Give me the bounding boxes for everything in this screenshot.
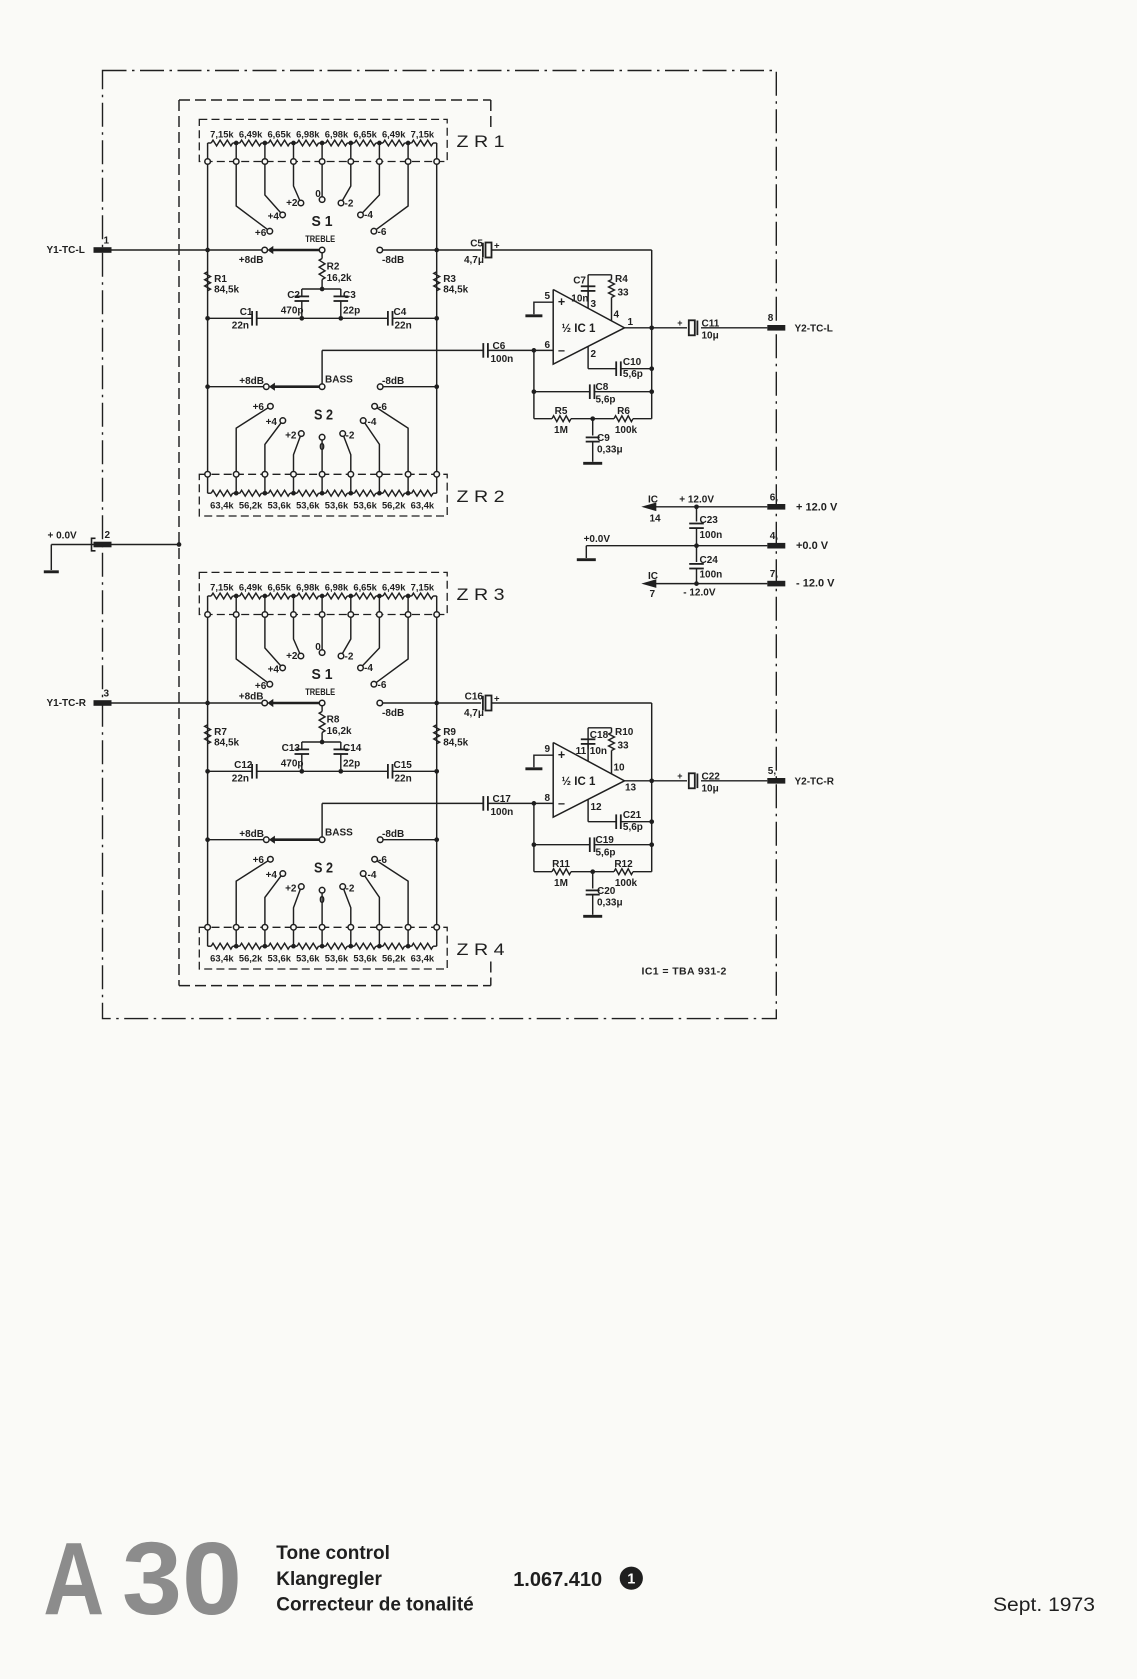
svg-text:Correcteur de tonalité: Correcteur de tonalité xyxy=(276,1595,473,1616)
svg-text:+8dB: +8dB xyxy=(239,692,264,703)
svg-text:-2: -2 xyxy=(346,431,355,442)
svg-text:10μ: 10μ xyxy=(702,331,719,342)
svg-text:53,6k: 53,6k xyxy=(353,953,377,964)
svg-text:-4: -4 xyxy=(364,210,373,221)
svg-text:-6: -6 xyxy=(378,855,387,866)
svg-text:+: + xyxy=(494,693,500,704)
svg-text:+2: +2 xyxy=(285,884,297,895)
svg-text:16,2k: 16,2k xyxy=(327,726,352,737)
svg-text:C8: C8 xyxy=(596,382,609,393)
svg-text:10n: 10n xyxy=(590,746,607,757)
svg-text:Z R 3: Z R 3 xyxy=(457,586,505,604)
svg-text:6: 6 xyxy=(544,340,550,351)
svg-text:10n: 10n xyxy=(571,294,588,305)
svg-text:Y1-TC-L: Y1-TC-L xyxy=(47,245,85,256)
svg-text:7,15k: 7,15k xyxy=(210,128,234,139)
svg-text:Z R 4: Z R 4 xyxy=(457,941,505,959)
svg-text:100k: 100k xyxy=(615,425,638,436)
svg-text:+: + xyxy=(558,295,565,309)
svg-text:C13: C13 xyxy=(282,743,301,754)
svg-text:R3: R3 xyxy=(443,274,456,285)
svg-text:C18: C18 xyxy=(590,730,609,741)
svg-text:16,2k: 16,2k xyxy=(327,273,352,284)
svg-text:C16: C16 xyxy=(465,691,484,702)
svg-text:6,98k: 6,98k xyxy=(325,128,349,139)
svg-text:-8dB: -8dB xyxy=(382,376,404,387)
svg-text:+: + xyxy=(558,748,565,762)
svg-text:C10: C10 xyxy=(623,357,642,368)
svg-text:470p: 470p xyxy=(281,759,304,770)
svg-text:1M: 1M xyxy=(554,878,568,889)
svg-text:53,6k: 53,6k xyxy=(296,500,320,511)
svg-text:22n: 22n xyxy=(395,321,412,332)
svg-text:+8dB: +8dB xyxy=(239,255,264,266)
svg-text:84,5k: 84,5k xyxy=(214,285,239,296)
svg-text:C9: C9 xyxy=(597,433,610,444)
svg-text:+ 12.0 V: + 12.0 V xyxy=(796,502,838,514)
svg-text:6,49k: 6,49k xyxy=(239,128,263,139)
svg-text:53,6k: 53,6k xyxy=(325,953,349,964)
svg-text:14: 14 xyxy=(650,514,662,525)
svg-text:R7: R7 xyxy=(214,727,227,738)
svg-text:C12: C12 xyxy=(234,760,253,771)
svg-text:C7: C7 xyxy=(573,276,586,287)
svg-text:8: 8 xyxy=(768,313,774,324)
svg-text:–: – xyxy=(558,343,565,357)
svg-text:2: 2 xyxy=(105,530,111,541)
svg-text:33: 33 xyxy=(618,741,630,752)
svg-text:C3: C3 xyxy=(343,290,356,301)
svg-text:22p: 22p xyxy=(343,306,360,317)
svg-text:6,98k: 6,98k xyxy=(325,581,349,592)
svg-text:+6: +6 xyxy=(253,402,265,413)
svg-text:C20: C20 xyxy=(597,886,616,897)
svg-text:C14: C14 xyxy=(343,743,362,754)
svg-text:6,98k: 6,98k xyxy=(296,128,320,139)
svg-text:+4: +4 xyxy=(268,665,280,676)
svg-text:+4: +4 xyxy=(268,212,280,223)
svg-text:-2: -2 xyxy=(345,652,354,663)
svg-text:+2: +2 xyxy=(285,431,297,442)
svg-text:5,6p: 5,6p xyxy=(623,822,643,833)
svg-text:BASS: BASS xyxy=(325,375,353,386)
svg-text:R11: R11 xyxy=(552,859,570,870)
svg-text:56,2k: 56,2k xyxy=(239,500,263,511)
svg-text:+4: +4 xyxy=(266,870,278,881)
svg-text:-8dB: -8dB xyxy=(382,255,404,266)
svg-text:C15: C15 xyxy=(394,760,413,771)
svg-text:+6: +6 xyxy=(255,681,267,692)
svg-text:5,6p: 5,6p xyxy=(623,369,643,380)
svg-text:+4: +4 xyxy=(266,417,278,428)
svg-text:1.067.410: 1.067.410 xyxy=(513,1569,602,1591)
svg-text:470p: 470p xyxy=(281,306,304,317)
svg-text:63,4k: 63,4k xyxy=(411,500,435,511)
svg-text:- 12.0V: - 12.0V xyxy=(683,587,716,598)
svg-text:53,6k: 53,6k xyxy=(267,953,291,964)
svg-text:6,98k: 6,98k xyxy=(296,581,320,592)
svg-text:53,6k: 53,6k xyxy=(325,500,349,511)
svg-text:9: 9 xyxy=(544,744,550,755)
svg-text:0: 0 xyxy=(315,642,321,653)
svg-text:100k: 100k xyxy=(615,878,638,889)
svg-text:R12: R12 xyxy=(614,859,633,870)
svg-text:12: 12 xyxy=(591,802,603,813)
svg-text:½ IC 1: ½ IC 1 xyxy=(562,323,596,335)
svg-text:10: 10 xyxy=(614,763,626,774)
svg-text:6,65k: 6,65k xyxy=(267,128,291,139)
svg-text:+6: +6 xyxy=(253,855,265,866)
svg-text:5: 5 xyxy=(544,291,550,302)
svg-text:R9: R9 xyxy=(443,727,456,738)
svg-text:-6: -6 xyxy=(378,680,387,691)
svg-text:5,6p: 5,6p xyxy=(596,848,616,859)
svg-text:-8dB: -8dB xyxy=(382,708,404,719)
svg-text:5,: 5, xyxy=(768,766,777,777)
svg-text:63,4k: 63,4k xyxy=(411,953,435,964)
svg-text:0: 0 xyxy=(315,189,321,200)
svg-text:3: 3 xyxy=(104,689,110,700)
svg-text:+: + xyxy=(494,240,500,251)
svg-text:22n: 22n xyxy=(395,774,412,785)
svg-text:-4: -4 xyxy=(364,663,373,674)
svg-text:Z R 2: Z R 2 xyxy=(457,488,505,506)
svg-text:S 2: S 2 xyxy=(314,861,333,877)
svg-text:4,7μ: 4,7μ xyxy=(464,255,484,266)
svg-text:53,6k: 53,6k xyxy=(353,500,377,511)
svg-text:+0.0 V: +0.0 V xyxy=(796,540,829,552)
svg-text:6,: 6, xyxy=(770,492,779,503)
svg-text:C24: C24 xyxy=(700,555,719,566)
svg-text:11: 11 xyxy=(576,746,587,757)
svg-text:8: 8 xyxy=(544,793,550,804)
svg-text:4,: 4, xyxy=(770,531,779,542)
svg-text:+2: +2 xyxy=(286,198,298,209)
svg-text:22n: 22n xyxy=(232,774,249,785)
svg-text:–: – xyxy=(558,796,565,810)
svg-text:C6: C6 xyxy=(493,341,506,352)
svg-text:0: 0 xyxy=(319,895,325,906)
svg-text:100n: 100n xyxy=(700,530,723,541)
svg-text:R1: R1 xyxy=(214,274,227,285)
svg-text:Y2-TC-L: Y2-TC-L xyxy=(795,323,833,334)
svg-text:+: + xyxy=(677,318,682,328)
svg-text:R5: R5 xyxy=(555,406,568,417)
svg-text:1: 1 xyxy=(104,236,110,247)
svg-text:6,65k: 6,65k xyxy=(267,581,291,592)
svg-text:63,4k: 63,4k xyxy=(210,500,234,511)
svg-text:Z R 1: Z R 1 xyxy=(457,133,505,151)
svg-text:22n: 22n xyxy=(232,321,249,332)
svg-text:+8dB: +8dB xyxy=(239,376,264,387)
svg-text:6,65k: 6,65k xyxy=(353,581,377,592)
svg-text:7,15k: 7,15k xyxy=(210,581,234,592)
svg-text:TREBLE: TREBLE xyxy=(305,687,335,697)
svg-text:100n: 100n xyxy=(491,354,514,365)
svg-text:+: + xyxy=(677,771,682,781)
svg-text:7,: 7, xyxy=(770,569,779,580)
svg-text:IC: IC xyxy=(648,495,658,506)
svg-text:C1: C1 xyxy=(240,307,253,318)
svg-text:30: 30 xyxy=(122,1521,242,1636)
svg-text:100n: 100n xyxy=(491,807,514,818)
svg-text:TREBLE: TREBLE xyxy=(305,234,335,244)
svg-text:C11: C11 xyxy=(702,319,720,330)
svg-text:6,49k: 6,49k xyxy=(239,581,263,592)
svg-text:S 1: S 1 xyxy=(312,214,333,230)
svg-text:BASS: BASS xyxy=(325,828,353,839)
svg-text:100n: 100n xyxy=(700,570,723,581)
svg-text:-4: -4 xyxy=(368,870,377,881)
svg-text:R4: R4 xyxy=(615,274,628,285)
svg-text:84,5k: 84,5k xyxy=(443,738,468,749)
svg-text:22p: 22p xyxy=(343,759,360,770)
svg-text:+8dB: +8dB xyxy=(239,829,264,840)
svg-text:S 2: S 2 xyxy=(314,408,333,424)
svg-text:+0.0V: +0.0V xyxy=(584,534,611,545)
svg-text:-8dB: -8dB xyxy=(382,829,404,840)
svg-text:+2: +2 xyxy=(286,651,298,662)
svg-text:Tone control: Tone control xyxy=(276,1543,390,1564)
svg-text:33: 33 xyxy=(618,288,630,299)
svg-text:+ 12.0V: + 12.0V xyxy=(679,495,714,506)
svg-text:C23: C23 xyxy=(700,515,719,526)
svg-text:R8: R8 xyxy=(327,715,340,726)
svg-text:C17: C17 xyxy=(493,794,512,805)
svg-text:56,2k: 56,2k xyxy=(382,953,406,964)
svg-text:7,15k: 7,15k xyxy=(411,581,435,592)
svg-text:-2: -2 xyxy=(346,884,355,895)
svg-text:C4: C4 xyxy=(394,307,407,318)
svg-text:6,49k: 6,49k xyxy=(382,581,406,592)
svg-text:4,7μ: 4,7μ xyxy=(464,708,484,719)
svg-text:1M: 1M xyxy=(554,425,568,436)
svg-text:-6: -6 xyxy=(378,227,387,238)
svg-text:7: 7 xyxy=(650,589,656,600)
svg-text:IC1 = TBA 931-2: IC1 = TBA 931-2 xyxy=(642,966,727,978)
svg-text:13: 13 xyxy=(625,782,637,793)
svg-text:-2: -2 xyxy=(345,199,354,210)
svg-text:+6: +6 xyxy=(255,228,267,239)
svg-text:84,5k: 84,5k xyxy=(214,738,239,749)
svg-text:53,6k: 53,6k xyxy=(296,953,320,964)
svg-text:-6: -6 xyxy=(378,402,387,413)
svg-text:0,33μ: 0,33μ xyxy=(597,445,623,456)
svg-text:56,2k: 56,2k xyxy=(382,500,406,511)
svg-text:Y2-TC-R: Y2-TC-R xyxy=(795,776,835,787)
svg-text:6,49k: 6,49k xyxy=(382,128,406,139)
svg-text:56,2k: 56,2k xyxy=(239,953,263,964)
svg-text:Y1-TC-R: Y1-TC-R xyxy=(47,698,87,709)
svg-text:R6: R6 xyxy=(617,406,630,417)
svg-text:3: 3 xyxy=(591,299,597,310)
svg-text:0: 0 xyxy=(319,442,325,453)
svg-text:C19: C19 xyxy=(596,835,615,846)
svg-text:R10: R10 xyxy=(615,727,634,738)
svg-text:C5: C5 xyxy=(470,238,483,249)
svg-text:Klangregler: Klangregler xyxy=(276,1569,382,1590)
svg-text:C2: C2 xyxy=(287,290,300,301)
svg-text:0,33μ: 0,33μ xyxy=(597,898,623,909)
svg-text:R2: R2 xyxy=(327,262,340,273)
svg-text:63,4k: 63,4k xyxy=(210,953,234,964)
svg-text:7,15k: 7,15k xyxy=(411,128,435,139)
svg-text:2: 2 xyxy=(591,349,597,360)
svg-text:1: 1 xyxy=(628,317,634,328)
svg-text:C21: C21 xyxy=(623,810,642,821)
svg-text:5,6p: 5,6p xyxy=(596,395,616,406)
svg-text:C22: C22 xyxy=(702,772,721,783)
svg-text:- 12.0 V: - 12.0 V xyxy=(796,577,835,589)
svg-text:6,65k: 6,65k xyxy=(353,128,377,139)
svg-text:IC: IC xyxy=(648,571,658,582)
svg-text:10μ: 10μ xyxy=(702,784,719,795)
svg-text:A: A xyxy=(43,1521,104,1636)
svg-text:53,6k: 53,6k xyxy=(267,500,291,511)
svg-text:-4: -4 xyxy=(368,417,377,428)
svg-text:Sept. 1973: Sept. 1973 xyxy=(993,1594,1095,1616)
svg-text:1: 1 xyxy=(627,1571,635,1587)
svg-text:S 1: S 1 xyxy=(312,667,333,683)
svg-text:½ IC 1: ½ IC 1 xyxy=(562,776,596,788)
svg-text:4: 4 xyxy=(614,310,620,321)
svg-text:84,5k: 84,5k xyxy=(443,285,468,296)
svg-text:+ 0.0V: + 0.0V xyxy=(48,531,78,542)
